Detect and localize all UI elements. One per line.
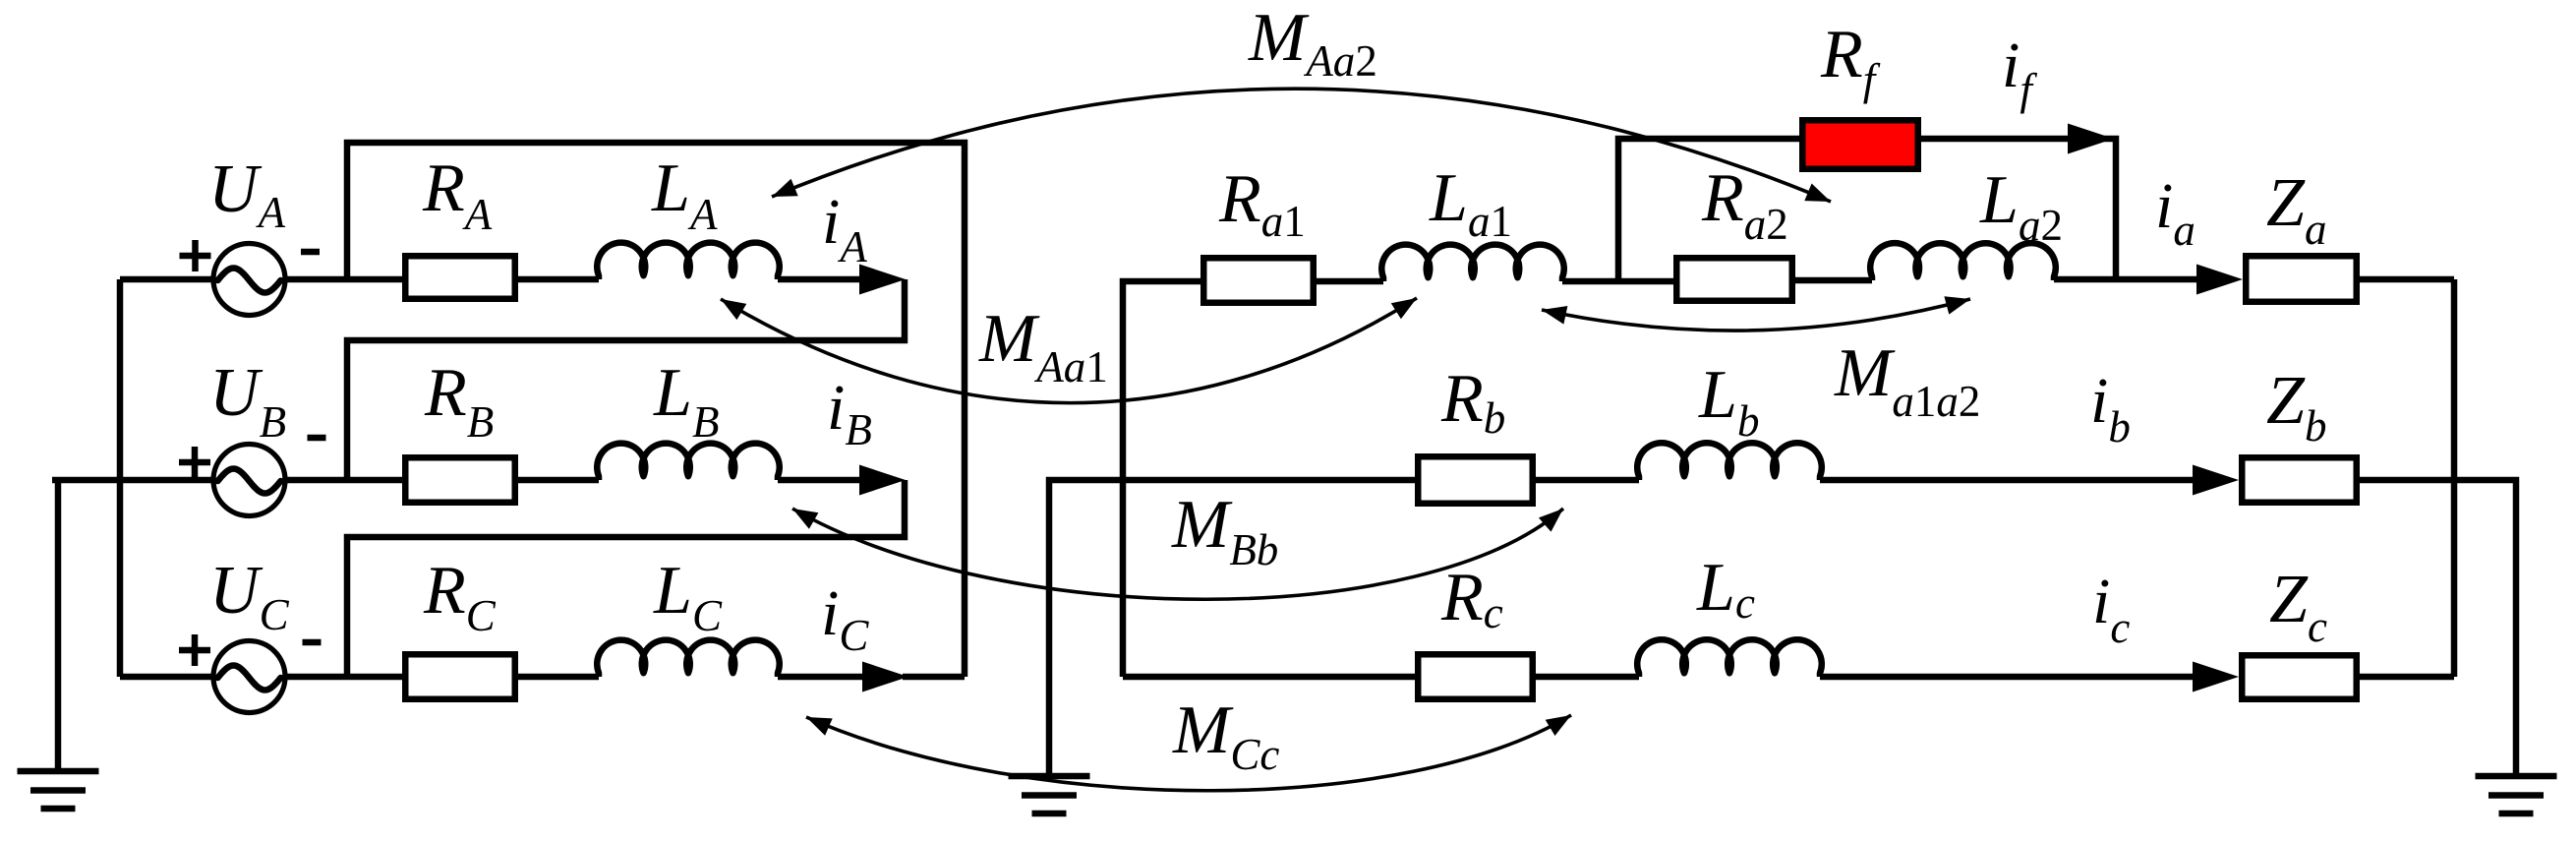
svg-text:Za: Za [2266, 165, 2326, 254]
svg-text:MAa2: MAa2 [1248, 0, 1377, 86]
svg-text:ib: ib [2090, 365, 2131, 451]
svg-text:LB: LB [653, 355, 719, 447]
svg-text:iB: iB [827, 372, 872, 454]
svg-text:RC: RC [423, 553, 497, 640]
svg-text:MBb: MBb [1171, 487, 1278, 574]
svg-text:Ra2: Ra2 [1701, 160, 1788, 249]
svg-text:Zb: Zb [2266, 363, 2326, 451]
svg-text:LA: LA [651, 150, 718, 239]
svg-text:Lb: Lb [1698, 357, 1759, 446]
svg-text:Rc: Rc [1440, 560, 1503, 637]
svg-text:Zc: Zc [2269, 562, 2327, 651]
svg-text:ia: ia [2155, 170, 2195, 255]
svg-text:UC: UC [209, 553, 290, 639]
svg-text:MAa1: MAa1 [978, 301, 1108, 391]
svg-text:iC: iC [821, 577, 869, 660]
svg-text:if: if [2002, 30, 2037, 114]
svg-text:Rb: Rb [1440, 361, 1505, 443]
svg-text:UB: UB [209, 355, 286, 447]
svg-text:iA: iA [822, 186, 867, 271]
svg-text:UA: UA [208, 151, 286, 237]
svg-text:Lc: Lc [1696, 550, 1755, 628]
svg-text:Rf: Rf [1820, 17, 1881, 104]
svg-text:La2: La2 [1979, 162, 2063, 250]
svg-text:LC: LC [653, 553, 723, 640]
svg-text:RB: RB [424, 355, 494, 447]
svg-text:Ra1: Ra1 [1218, 161, 1306, 246]
svg-text:Ma1a2: Ma1a2 [1834, 335, 1980, 426]
svg-text:MCc: MCc [1172, 692, 1279, 779]
svg-text:La1: La1 [1429, 160, 1512, 246]
svg-text:ic: ic [2092, 566, 2130, 652]
svg-text:RA: RA [422, 150, 493, 239]
